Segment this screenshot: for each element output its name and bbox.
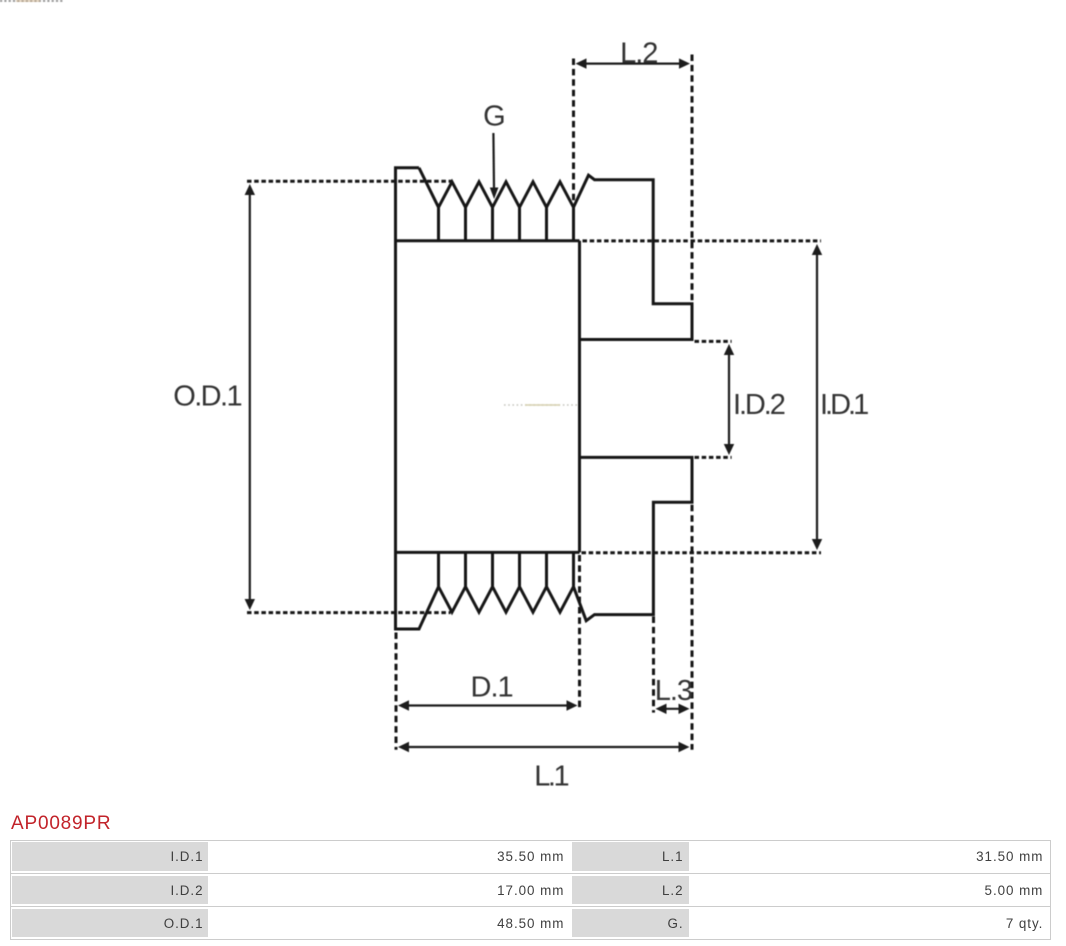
- svg-text:I.D.2: I.D.2: [733, 389, 785, 421]
- svg-text:I.D.1: I.D.1: [820, 389, 868, 421]
- svg-text:L.2: L.2: [620, 37, 657, 69]
- svg-text:D.1: D.1: [471, 671, 513, 703]
- svg-text:G: G: [483, 101, 505, 133]
- svg-text:L.1: L.1: [534, 760, 568, 792]
- svg-text:O.D.1: O.D.1: [173, 381, 241, 413]
- svg-text:L.3: L.3: [655, 675, 692, 707]
